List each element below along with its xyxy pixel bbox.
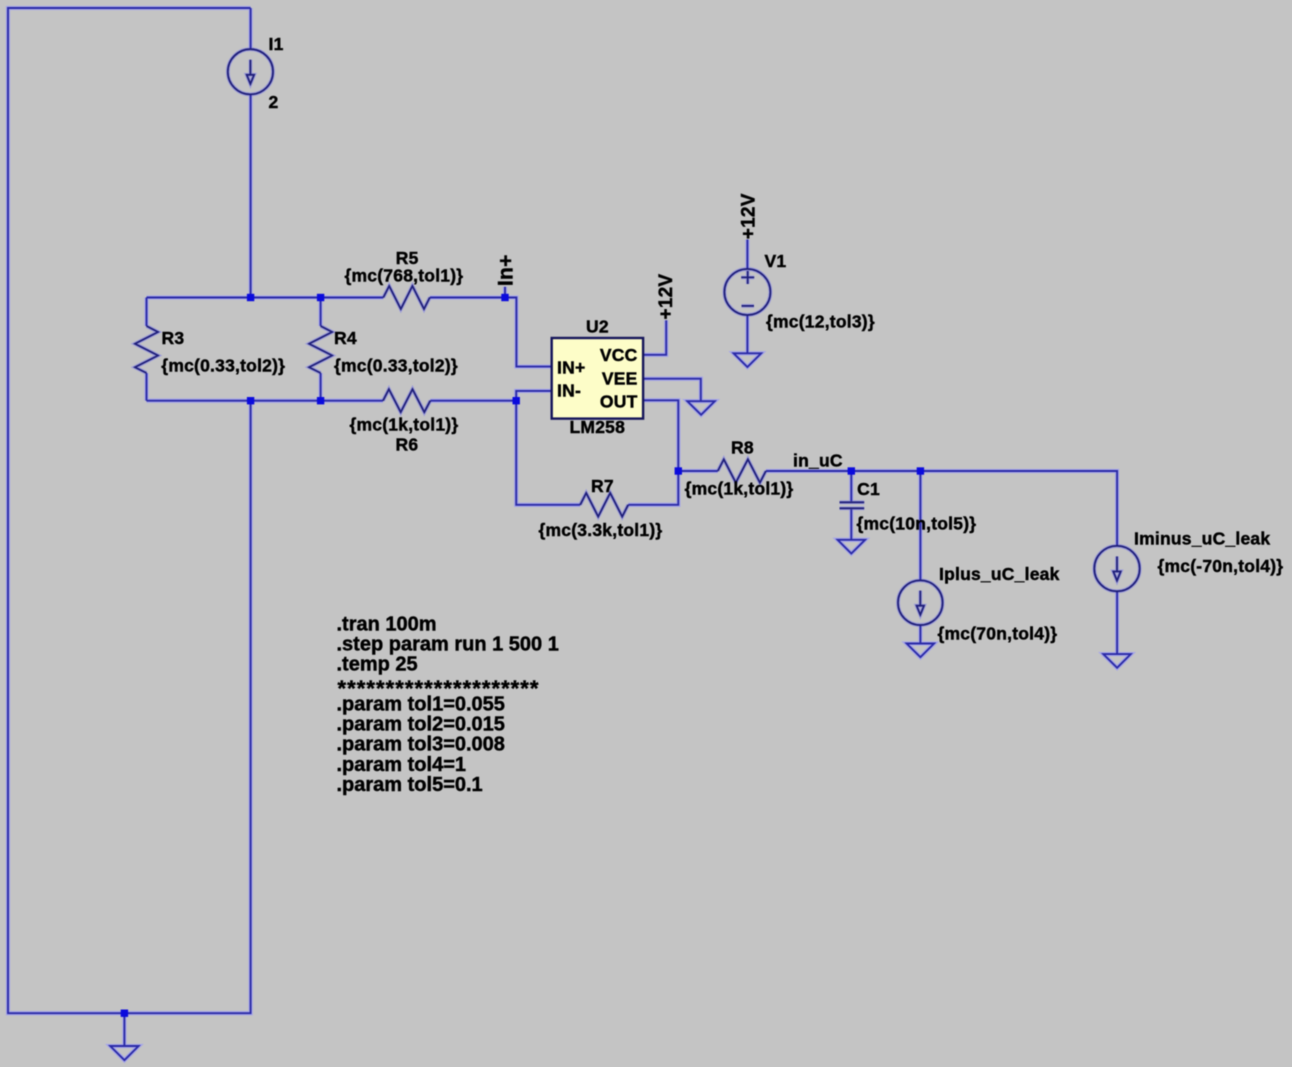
svg-text:R4: R4 <box>334 328 357 348</box>
svg-text:U2: U2 <box>586 317 609 337</box>
svg-text:R8: R8 <box>731 438 754 458</box>
svg-text:{mc(3.3k,tol1)}: {mc(3.3k,tol1)} <box>539 520 663 540</box>
svg-text:.tran 100m: .tran 100m <box>337 613 437 635</box>
svg-text:.param tol5=0.1: .param tol5=0.1 <box>337 774 483 796</box>
svg-text:in_uC: in_uC <box>793 451 843 471</box>
svg-text:V1: V1 <box>765 251 787 271</box>
svg-text:.param tol3=0.008: .param tol3=0.008 <box>337 734 505 756</box>
svg-text:IN-: IN- <box>557 380 581 400</box>
svg-text:VCC: VCC <box>600 345 638 365</box>
svg-text:{mc(10n,tol5)}: {mc(10n,tol5)} <box>857 514 977 534</box>
svg-text:C1: C1 <box>857 479 880 499</box>
svg-text:{mc(1k,tol1)}: {mc(1k,tol1)} <box>350 415 459 435</box>
svg-text:Iplus_uC_leak: Iplus_uC_leak <box>939 564 1060 584</box>
svg-text:R3: R3 <box>162 328 185 348</box>
svg-text:OUT: OUT <box>600 392 638 412</box>
svg-text:{mc(70n,tol4)}: {mc(70n,tol4)} <box>938 624 1058 644</box>
svg-text:.step param run 1 500 1: .step param run 1 500 1 <box>337 634 559 656</box>
svg-text:.temp 25: .temp 25 <box>337 654 418 676</box>
svg-text:.param tol1=0.055: .param tol1=0.055 <box>337 694 505 716</box>
svg-text:{mc(0.33,tol2)}: {mc(0.33,tol2)} <box>334 356 458 376</box>
svg-text:.param tol4=1: .param tol4=1 <box>337 754 467 776</box>
svg-text:LM258: LM258 <box>570 417 626 437</box>
svg-text:+12V: +12V <box>656 274 677 320</box>
svg-text:IN+: IN+ <box>557 357 585 377</box>
svg-text:{mc(0.33,tol2)}: {mc(0.33,tol2)} <box>161 355 285 375</box>
svg-text:R7: R7 <box>591 476 614 496</box>
svg-text:{mc(12,tol3)}: {mc(12,tol3)} <box>766 312 875 332</box>
svg-text:I1: I1 <box>269 34 284 54</box>
svg-text:{mc(1k,tol1)}: {mc(1k,tol1)} <box>685 479 794 499</box>
svg-text:VEE: VEE <box>602 369 638 389</box>
svg-text:{mc(-70n,tol4)}: {mc(-70n,tol4)} <box>1158 556 1284 576</box>
svg-text:{mc(768,tol1)}: {mc(768,tol1)} <box>345 266 464 286</box>
svg-text:In+: In+ <box>494 254 517 286</box>
svg-text:R6: R6 <box>396 435 419 455</box>
svg-text:+12V: +12V <box>738 193 759 239</box>
svg-text:2: 2 <box>269 92 279 112</box>
svg-text:Iminus_uC_leak: Iminus_uC_leak <box>1134 529 1270 549</box>
svg-text:.param tol2=0.015: .param tol2=0.015 <box>337 714 505 736</box>
